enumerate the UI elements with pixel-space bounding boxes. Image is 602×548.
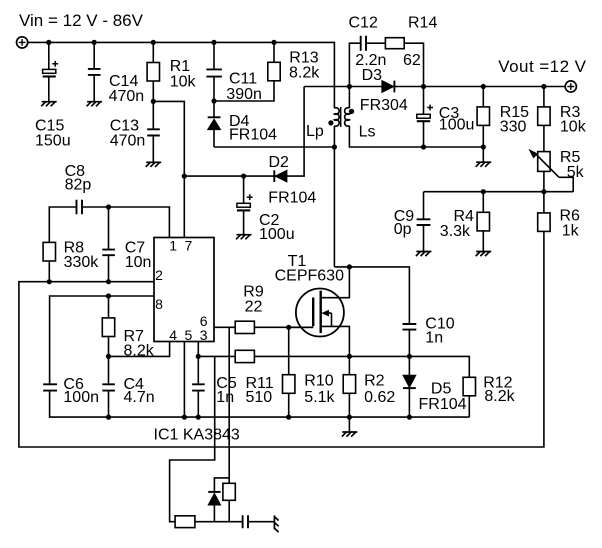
svg-text:8: 8 — [155, 296, 163, 312]
svg-text:CEPF630: CEPF630 — [275, 268, 344, 285]
svg-text:0.62: 0.62 — [364, 389, 395, 406]
svg-text:R2: R2 — [364, 373, 385, 390]
svg-text:4.7n: 4.7n — [124, 389, 155, 406]
svg-text:150u: 150u — [35, 132, 71, 149]
svg-text:C12: C12 — [349, 14, 378, 31]
svg-text:FR104: FR104 — [268, 189, 316, 206]
svg-text:FR304: FR304 — [360, 97, 408, 114]
svg-text:0p: 0p — [394, 221, 412, 238]
svg-text:82p: 82p — [65, 176, 92, 193]
svg-text:Vout =12 V: Vout =12 V — [498, 57, 586, 76]
svg-text:470n: 470n — [110, 132, 146, 149]
svg-text:8.2k: 8.2k — [289, 64, 320, 81]
svg-text:7: 7 — [185, 237, 193, 253]
svg-text:330k: 330k — [64, 254, 100, 271]
svg-text:8.2k: 8.2k — [484, 388, 515, 405]
svg-text:330: 330 — [500, 118, 527, 135]
svg-text:390n: 390n — [226, 86, 262, 103]
svg-text:1n: 1n — [216, 389, 234, 406]
svg-text:Vin = 12 V - 86V: Vin = 12 V - 86V — [19, 11, 144, 30]
svg-text:Ls: Ls — [359, 123, 376, 140]
svg-text:5: 5 — [185, 327, 193, 343]
svg-text:D3: D3 — [362, 67, 383, 84]
svg-text:5.1k: 5.1k — [304, 389, 335, 406]
svg-text:1: 1 — [169, 237, 177, 253]
svg-text:R10: R10 — [304, 373, 333, 390]
svg-text:4: 4 — [169, 327, 177, 343]
svg-text:D2: D2 — [269, 154, 290, 171]
svg-text:R14: R14 — [408, 14, 437, 31]
svg-text:470n: 470n — [109, 88, 145, 105]
svg-text:510: 510 — [246, 389, 273, 406]
svg-text:10n: 10n — [125, 254, 152, 271]
svg-text:62: 62 — [403, 52, 421, 69]
svg-text:5k: 5k — [567, 164, 585, 181]
svg-text:22: 22 — [245, 299, 263, 316]
svg-text:1n: 1n — [425, 329, 443, 346]
svg-text:10k: 10k — [170, 73, 197, 90]
svg-text:IC1 KA3843: IC1 KA3843 — [154, 426, 240, 443]
svg-text:100u: 100u — [439, 117, 475, 134]
svg-text:100u: 100u — [259, 226, 295, 243]
svg-text:100n: 100n — [63, 389, 99, 406]
svg-text:3: 3 — [200, 327, 208, 343]
svg-text:2: 2 — [155, 267, 163, 283]
svg-text:1k: 1k — [562, 222, 580, 239]
svg-text:D5: D5 — [431, 380, 452, 397]
svg-text:FR104: FR104 — [419, 396, 467, 413]
svg-text:FR104: FR104 — [229, 127, 277, 144]
svg-text:Lp: Lp — [306, 123, 324, 140]
svg-text:10k: 10k — [560, 118, 587, 135]
svg-text:3.3k: 3.3k — [440, 223, 471, 240]
svg-text:8.2k: 8.2k — [124, 343, 155, 360]
